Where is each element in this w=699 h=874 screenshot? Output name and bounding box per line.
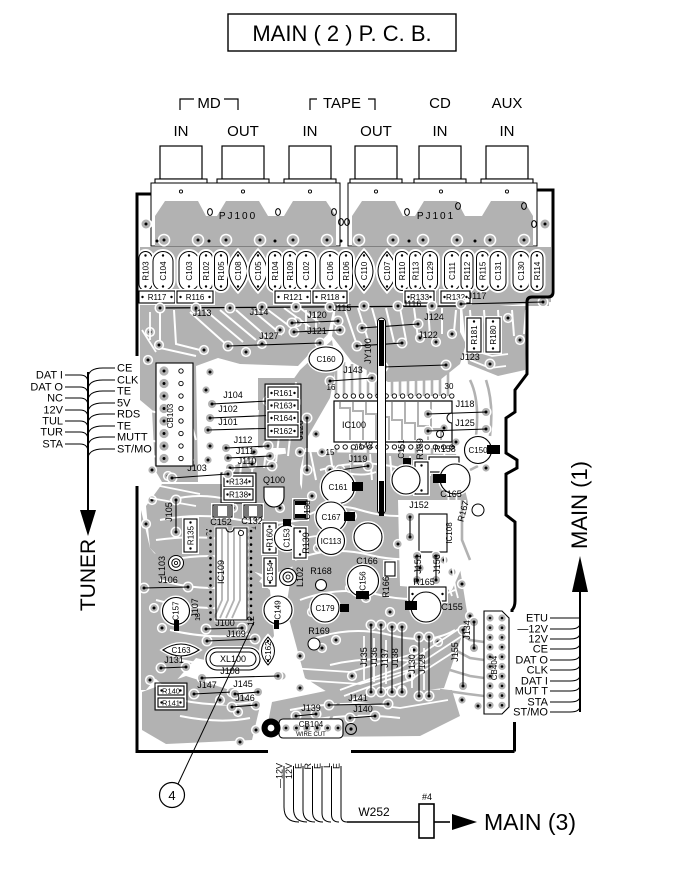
op-amp U IC108 [419, 514, 447, 552]
crystal XL100 [206, 648, 260, 670]
svg-text:J109: J109 [226, 629, 246, 639]
svg-text:J101: J101 [218, 417, 238, 427]
svg-text:R169: R169 [308, 626, 330, 636]
svg-text:C157: C157 [172, 601, 181, 621]
svg-text:J143: J143 [343, 365, 363, 375]
resistor R105 [215, 252, 228, 291]
copper pour left mid2 [150, 552, 262, 596]
jumper J118 [423, 409, 434, 420]
jumper J105 [171, 495, 182, 506]
jumper J111 [223, 453, 234, 464]
jumper J102 [205, 413, 216, 424]
svg-text:J112: J112 [234, 435, 253, 445]
resistor R104 [269, 252, 282, 291]
resistor R181 [467, 318, 481, 352]
svg-text:R104: R104 [271, 261, 280, 281]
svg-text:J105: J105 [164, 502, 174, 522]
resistor R109 [284, 252, 297, 291]
svg-text:C155: C155 [441, 602, 463, 612]
capacitor C153 [275, 526, 300, 551]
resistor R160 [263, 523, 276, 553]
capacitor C111 [445, 252, 460, 291]
svg-text:12: 12 [246, 616, 256, 626]
svg-text:R162: R162 [273, 427, 293, 436]
copper pour bottom left [142, 676, 260, 744]
svg-text:STA: STA [42, 439, 63, 451]
svg-text:R118: R118 [321, 293, 340, 302]
resistor R135 [184, 519, 197, 552]
copper pour upper-left block [140, 306, 334, 482]
svg-text:IN: IN [500, 123, 515, 140]
capacitor C154 [264, 558, 276, 586]
resistor R163 [268, 400, 298, 411]
via pads [145, 327, 155, 337]
connector CB104 [279, 719, 343, 738]
svg-text:J110: J110 [238, 456, 257, 466]
copper trace channels [160, 310, 196, 356]
copper pour mid-left [146, 484, 312, 578]
svg-text:C151: C151 [397, 439, 406, 459]
svg-text:R106: R106 [342, 261, 351, 281]
jumper J108 [197, 673, 208, 684]
jumper J123 [378, 362, 389, 373]
jumper J136 [376, 620, 387, 631]
jack AUX IN [486, 146, 528, 179]
svg-text:J136: J136 [369, 647, 379, 667]
svg-text:W252: W252 [358, 805, 390, 819]
capacitor C168 [354, 523, 382, 551]
svg-text:R141: R141 [162, 699, 180, 708]
svg-text:R134: R134 [229, 478, 249, 487]
svg-text:4: 4 [168, 788, 175, 803]
jumper J130 [414, 632, 425, 643]
svg-text:R138: R138 [229, 491, 249, 500]
title box MAIN (2) P.C.B. [228, 14, 456, 51]
resistor R116 [177, 291, 213, 303]
resistor R162 [268, 425, 298, 437]
connector CB404 [484, 611, 509, 714]
svg-text:R116: R116 [186, 293, 205, 302]
resistor R138 [224, 489, 253, 500]
resistor R112 [461, 252, 473, 291]
svg-text:C102: C102 [302, 261, 311, 281]
capacitor C156 [348, 566, 379, 597]
IC109 pins [207, 528, 214, 535]
svg-text:CD: CD [429, 95, 451, 112]
svg-text:IN: IN [303, 123, 318, 140]
capacitor C108 [229, 252, 247, 291]
svg-text:E: E [332, 763, 342, 769]
resistor R117 [139, 291, 175, 303]
white zone around IC108 [398, 500, 466, 590]
svg-text:DAT I: DAT I [36, 370, 63, 382]
svg-text:IC100: IC100 [342, 420, 366, 430]
copper pour below IC100 [226, 452, 300, 500]
svg-text:C108: C108 [234, 261, 243, 281]
connector PJ100 outline [151, 183, 340, 246]
svg-text:C149: C149 [274, 600, 283, 620]
svg-text:J111: J111 [236, 446, 254, 456]
svg-text:R117: R117 [148, 293, 167, 302]
svg-text:R158: R158 [434, 444, 456, 454]
svg-text:R166: R166 [381, 576, 391, 598]
capacitor C130 [513, 252, 529, 291]
jumper J122 [352, 341, 363, 352]
svg-text:CB103: CB103 [166, 403, 175, 428]
node frame R134/R138 [221, 473, 256, 503]
jumper J112 [221, 443, 232, 454]
jack CD IN [419, 146, 461, 179]
svg-text:C179: C179 [315, 604, 335, 613]
wire MAIN(3) arrow [434, 821, 450, 823]
board outline right notched edge [506, 190, 553, 752]
mount hole bottom [262, 719, 281, 738]
svg-text:16: 16 [327, 383, 336, 392]
jumper J100 [201, 624, 212, 635]
jumper J147 [189, 689, 200, 700]
svg-text:J123: J123 [460, 352, 480, 362]
svg-text:J121: J121 [307, 326, 327, 336]
resistor R140 [158, 686, 184, 695]
svg-text:J131: J131 [164, 655, 184, 665]
svg-text:C161: C161 [328, 483, 348, 492]
svg-text:C104: C104 [159, 261, 168, 281]
svg-text:R164: R164 [273, 414, 293, 423]
jumper J116 [359, 301, 370, 312]
svg-text:J139: J139 [301, 703, 321, 713]
jumper J119 [335, 465, 346, 476]
svg-text:J104: J104 [223, 390, 243, 400]
connector JY100 [378, 318, 386, 514]
svg-text:C106: C106 [326, 261, 335, 281]
resistor R161 [268, 387, 298, 399]
svg-text:AUX: AUX [492, 95, 523, 112]
svg-text:TUR: TUR [40, 427, 63, 439]
jumper J106 [139, 583, 150, 594]
svg-text:J114: J114 [250, 307, 269, 317]
capacitor C110 [355, 252, 373, 291]
svg-text:C163: C163 [171, 646, 191, 655]
jumper J104 [207, 399, 218, 410]
svg-text:OUT: OUT [227, 123, 259, 140]
connector CB103 [156, 363, 193, 466]
wire TUNER arrow [87, 372, 89, 512]
svg-text:15: 15 [326, 448, 335, 457]
jumper J138 [397, 622, 408, 633]
svg-text:J116: J116 [403, 299, 422, 309]
capacitor C155 [411, 592, 441, 622]
capacitor C160 [309, 347, 343, 371]
svg-text:J127: J127 [259, 331, 279, 341]
board outline left and bottom [137, 194, 515, 752]
svg-text:R: R [303, 763, 313, 770]
svg-text:R181: R181 [470, 325, 479, 345]
svg-text:XL100: XL100 [220, 654, 246, 664]
resistor R141 [158, 698, 184, 707]
copper pour center block [332, 306, 466, 382]
svg-text:J146: J146 [235, 693, 255, 703]
resistor R180 [486, 318, 500, 352]
capacitor C131 [490, 252, 506, 291]
jumper J155 [458, 625, 469, 636]
svg-text:C110: C110 [360, 261, 369, 280]
svg-text:CE: CE [117, 363, 132, 375]
svg-text:R105: R105 [217, 261, 226, 281]
svg-text:J141: J141 [348, 693, 368, 703]
svg-text:C152: C152 [210, 517, 232, 527]
transistor Q102 [392, 466, 420, 494]
resistor R121 [275, 291, 311, 303]
svg-text:J102: J102 [218, 404, 238, 414]
op-amp U IC109 [216, 528, 247, 620]
svg-text:L102: L102 [295, 567, 305, 587]
svg-text:C132: C132 [241, 516, 263, 526]
resistor R115 [477, 252, 489, 291]
capacitor C107 [378, 252, 396, 291]
capacitor C179 [311, 594, 339, 622]
jumper J141 [324, 700, 335, 711]
svg-text:—12V: —12V [275, 763, 285, 788]
inductor L102 [280, 569, 297, 586]
node frame R140/R141 [155, 683, 187, 710]
jumper J117 [427, 301, 438, 312]
svg-text:J108: J108 [220, 666, 240, 676]
capacitor C157 [163, 598, 190, 625]
pad right of CB104 [346, 724, 357, 735]
svg-text:ST/MO: ST/MO [117, 444, 152, 456]
copper trace channels 2 [340, 628, 460, 690]
jumper J113 [155, 303, 166, 314]
capacitor C105 [249, 252, 267, 291]
svg-text:RDS: RDS [117, 409, 140, 421]
copper pour PJ101 fill [352, 201, 533, 246]
svg-text:L: L [322, 763, 332, 768]
svg-text:C160: C160 [316, 355, 336, 364]
copper pour top band [140, 247, 551, 308]
svg-text:C107: C107 [383, 261, 392, 281]
svg-text:IC113: IC113 [321, 537, 342, 546]
svg-text:PJ101: PJ101 [417, 211, 455, 222]
resistor R158 [429, 457, 459, 472]
jumper J140 [345, 713, 356, 724]
node callout 4 [160, 783, 185, 808]
svg-text:ST/MO: ST/MO [513, 707, 548, 719]
jumper J126 [302, 413, 313, 424]
svg-text:E: E [294, 763, 304, 769]
svg-text:J129: J129 [417, 654, 427, 674]
svg-text:L103: L103 [157, 556, 167, 576]
resistor R166 [385, 562, 395, 576]
svg-text:C162: C162 [264, 641, 273, 661]
capacitor C167 [316, 502, 346, 532]
capacitor C138 [294, 500, 307, 519]
wire rail J113-J116 [155, 306, 460, 308]
resistor R110 [396, 252, 409, 291]
capacitor C106 [320, 252, 340, 291]
svg-text:J155: J155 [450, 642, 460, 662]
svg-text:IN: IN [174, 123, 189, 140]
svg-text:R103: R103 [142, 261, 151, 281]
svg-text:R110: R110 [398, 261, 407, 280]
jumper J110 [225, 463, 236, 474]
capacitor C161 [322, 471, 355, 504]
svg-text:TE: TE [117, 386, 131, 398]
jumper J145 [230, 689, 241, 700]
capacitor C151 [403, 458, 411, 470]
resistor R113 [410, 252, 422, 291]
svg-text:12V: 12V [284, 763, 294, 779]
resistor R159 [415, 462, 428, 494]
op-amp U IC113 [318, 528, 345, 555]
svg-text:J119: J119 [349, 454, 368, 464]
resistor R118 [313, 291, 347, 303]
svg-text:J151: J151 [413, 554, 423, 574]
svg-text:C150: C150 [468, 446, 488, 455]
jumper J152 [405, 512, 416, 523]
svg-text:TAPE: TAPE [323, 95, 361, 112]
svg-text:R168: R168 [310, 566, 332, 576]
jumper J127 [223, 341, 234, 352]
jack MD IN [160, 146, 202, 179]
jumper J124 [357, 323, 368, 334]
capacitor C104 [153, 252, 173, 291]
svg-text:J140: J140 [353, 704, 373, 714]
jumper J121 [289, 327, 300, 338]
svg-text:R114: R114 [533, 261, 542, 280]
jumper J131 [156, 663, 167, 674]
svg-text:30: 30 [445, 382, 454, 391]
capacitor C162 [262, 637, 275, 665]
jumper J146 [227, 702, 238, 713]
svg-text:R139: R139 [301, 532, 311, 554]
svg-text:C131: C131 [494, 261, 503, 281]
connector #4 [419, 804, 434, 838]
svg-text:C165: C165 [440, 489, 462, 499]
jack TAPE IN [289, 146, 331, 179]
svg-text:C105: C105 [254, 261, 263, 281]
svg-text:R109: R109 [286, 261, 295, 281]
svg-text:IC108: IC108 [445, 522, 454, 544]
svg-text:R180: R180 [489, 325, 498, 345]
copper pour bottom center J141 area [266, 688, 460, 737]
svg-text:J122: J122 [418, 330, 438, 340]
svg-text:C129: C129 [426, 261, 435, 281]
svg-text:IN: IN [433, 123, 448, 140]
svg-text:IC109: IC109 [216, 560, 226, 584]
jumper J139 [291, 711, 302, 722]
capacitor C165 [440, 464, 470, 494]
jumper J134 [469, 617, 480, 628]
svg-text:R113: R113 [412, 261, 421, 280]
resistor R106 [340, 252, 353, 291]
copper pour center low [286, 452, 468, 700]
svg-text:R165: R165 [413, 577, 435, 587]
svg-text:R121: R121 [283, 293, 303, 302]
svg-text:R115: R115 [479, 261, 488, 280]
svg-text:R112: R112 [463, 261, 472, 280]
capacitor C152 [213, 505, 232, 517]
svg-text:J147: J147 [197, 680, 217, 690]
copper pour above IC100 [282, 340, 336, 470]
connector PJ100/PJ101 pads [158, 234, 171, 247]
svg-text:R102: R102 [202, 261, 211, 281]
capacitor C102 [297, 252, 316, 291]
capacitor C150 [465, 437, 492, 464]
svg-text:JY100: JY100 [363, 338, 373, 364]
svg-text:PJ100: PJ100 [219, 211, 257, 222]
resistor R139 [294, 528, 306, 558]
svg-text:C167: C167 [321, 513, 341, 522]
svg-text:C138: C138 [303, 500, 312, 520]
svg-text:R135: R135 [187, 525, 196, 545]
svg-text:MAIN (1): MAIN (1) [567, 461, 592, 549]
svg-text:CB404: CB404 [490, 655, 499, 680]
resistor R164 [268, 412, 298, 424]
copper pour right upper [462, 300, 549, 376]
svg-text:J117: J117 [468, 291, 487, 301]
resistor R133 [405, 291, 434, 303]
svg-text:Q100: Q100 [263, 475, 285, 485]
svg-text:MAIN ( 2 ) P. C. B.: MAIN ( 2 ) P. C. B. [252, 21, 431, 46]
jumper J125 [423, 426, 434, 437]
svg-text:C130: C130 [517, 261, 526, 281]
op-amp U IC100 [340, 402, 350, 440]
jumper J135 [366, 620, 377, 631]
svg-text:J124: J124 [424, 312, 444, 322]
transistor Q100 [264, 487, 284, 507]
capacitor C149 [264, 596, 292, 624]
copper pour left belt [141, 510, 168, 690]
svg-text:J113: J113 [193, 308, 212, 318]
svg-text:TUNER: TUNER [77, 539, 100, 611]
jumper J103 [167, 473, 178, 484]
resistor R165 [409, 587, 446, 601]
jumper J114 [225, 303, 236, 314]
node frame R161-R162 [265, 384, 301, 440]
wire MAIN(1) arrow [579, 590, 581, 712]
svg-text:MUTT: MUTT [117, 432, 148, 444]
svg-text:J152: J152 [409, 500, 429, 510]
jumper J150 [431, 551, 442, 562]
connector PJ101 outline [348, 183, 537, 246]
resistor R134 [224, 476, 253, 487]
svg-text:J150: J150 [432, 554, 442, 574]
svg-text:C153: C153 [283, 528, 292, 548]
svg-text:E: E [313, 763, 323, 769]
jumper J129 [424, 632, 435, 643]
capacitor C163 [163, 644, 199, 656]
jumper J120 [287, 318, 298, 329]
svg-text:J120: J120 [307, 310, 327, 320]
jumper J143 [325, 376, 336, 387]
svg-text:J138: J138 [390, 648, 400, 668]
svg-text:J100: J100 [215, 618, 235, 628]
svg-text:J107: J107 [190, 598, 200, 618]
inductor L103 [169, 556, 184, 571]
svg-text:J125: J125 [455, 418, 475, 428]
svg-text:#4: #4 [422, 792, 432, 802]
jumper J109 [202, 636, 213, 647]
svg-text:J145: J145 [233, 679, 253, 689]
svg-text:J106: J106 [158, 575, 178, 585]
copper pour left low [144, 556, 274, 690]
resistor R103 [139, 252, 152, 291]
svg-text:MD: MD [197, 95, 220, 112]
jumper J115 [291, 302, 302, 313]
svg-text:C103: C103 [185, 261, 194, 281]
capacitor C103 [179, 252, 199, 291]
jack MD OUT [222, 146, 264, 179]
